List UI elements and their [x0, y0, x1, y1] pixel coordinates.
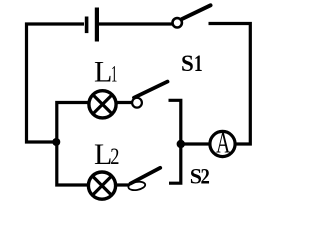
switch S2 pivot ellipse — [128, 180, 146, 191]
wire battery to switch S — [99, 22, 173, 25]
switch S2 lever — [131, 168, 161, 184]
lamp L1 — [89, 91, 116, 118]
lamp L2 — [88, 172, 115, 199]
switch S lever — [182, 5, 211, 19]
wire switch S to top-right corner and down right side to ammeter — [209, 24, 251, 145]
wire left side: top-left corner down to mid-left — [27, 24, 85, 142]
switch S pivot circle — [173, 18, 182, 27]
svg-text:A: A — [216, 127, 231, 160]
battery: long plate (positive) — [95, 8, 99, 42]
switch S1 pivot circle — [132, 98, 142, 108]
right bus: L1 contact stub, vertical, L2 contact stub — [169, 100, 181, 183]
wire ammeter to right bus junction — [181, 142, 211, 145]
svg-text:1: 1 — [194, 52, 203, 77]
switch S1 lever — [134, 82, 168, 98]
junction node right — [177, 140, 185, 148]
battery: short plate (negative) — [85, 17, 89, 34]
junction node left — [52, 138, 60, 146]
svg-text:S: S — [181, 51, 194, 76]
left bus and branch wires: L1 branch wire, vertical bus, L2 branch wire — [57, 103, 134, 186]
svg-text:1: 1 — [111, 62, 117, 88]
svg-text:2: 2 — [201, 165, 210, 189]
svg-text:2: 2 — [110, 143, 119, 170]
svg-text:L: L — [94, 56, 112, 89]
ammeter A — [210, 131, 235, 156]
